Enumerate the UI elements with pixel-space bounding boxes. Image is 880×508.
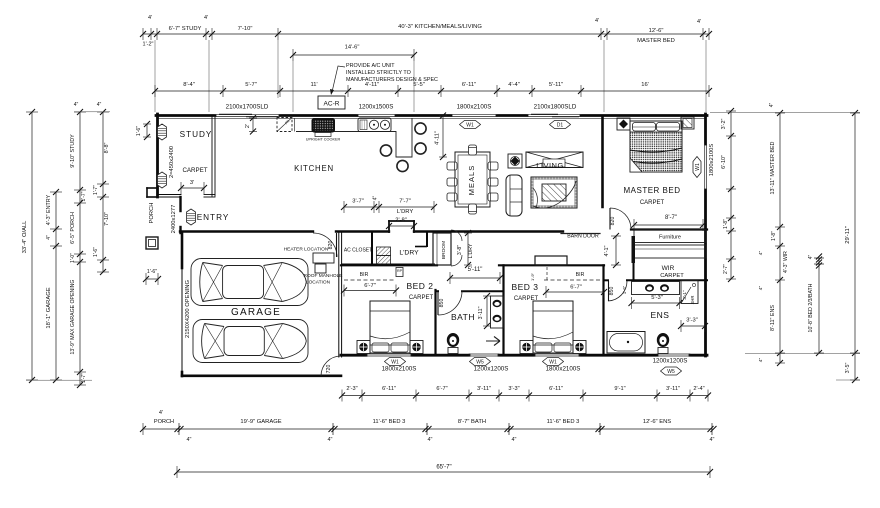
right col B (779, 113, 781, 363)
svg-text:WIR: WIR (662, 265, 675, 272)
svg-text:STUDY: STUDY (180, 130, 213, 139)
ens vanity (632, 282, 680, 295)
svg-text:6'-5" PORCH: 6'-5" PORCH (70, 212, 76, 244)
door: entry hatch panel (187, 209, 196, 225)
porch 1-6 dim (146, 278, 158, 280)
svg-text:1'-0": 1'-0" (70, 253, 76, 263)
bath window marker (470, 358, 491, 366)
svg-text:9'-1": 9'-1" (614, 386, 625, 392)
bath toilet (447, 333, 459, 347)
svg-text:5'-11": 5'-11" (468, 267, 483, 273)
svg-text:AC CLOSET: AC CLOSET (344, 248, 372, 254)
window opening in top wall 451-497 (451, 114, 497, 116)
svg-text:L'DRY: L'DRY (397, 209, 414, 215)
wall: porch notch (147, 187, 157, 189)
svg-text:29'-11": 29'-11" (845, 226, 851, 244)
svg-text:16': 16' (641, 82, 649, 88)
bed3 window marker (543, 358, 564, 366)
svg-text:14'-6": 14'-6" (345, 45, 360, 51)
rug inner hatched (542, 184, 566, 201)
ens 5-3 dim (632, 302, 680, 304)
ldry dims above hall (344, 206, 434, 208)
kitchen stools (380, 145, 391, 156)
wall: bed2 east / bath west (434, 290, 436, 355)
svg-text:SHR: SHR (690, 296, 695, 305)
svg-text:7'-10": 7'-10" (104, 212, 110, 226)
wall: ens north / wir south (604, 279, 609, 281)
kitchen bench counter (296, 118, 412, 157)
master window marker (693, 157, 701, 178)
svg-text:1'-6": 1'-6" (622, 285, 627, 294)
svg-text:1200x1200S: 1200x1200S (474, 366, 509, 373)
svg-text:RP: RP (397, 269, 403, 273)
svg-text:3'-11": 3'-11" (666, 386, 680, 392)
svg-text:4'-3" WIR: 4'-3" WIR (783, 251, 789, 273)
door: master 820 (610, 208, 631, 229)
svg-text:3': 3' (190, 180, 194, 186)
window opening bottom wall 657-690 (657, 353, 690, 355)
wall: left exterior (study) (156, 114, 159, 197)
svg-text:HEATER LOCATION: HEATER LOCATION (284, 247, 329, 253)
bath arrow (486, 337, 500, 346)
svg-text:2'-7": 2'-7" (723, 264, 729, 274)
wall: master south / wir north (631, 228, 707, 230)
svg-text:INSTALLED STRICTLY TO: INSTALLED STRICTLY TO (346, 70, 411, 76)
left side connector lines (74, 111, 110, 113)
svg-text:6'-7": 6'-7" (436, 386, 447, 392)
svg-text:3'-3": 3'-3" (686, 318, 698, 324)
svg-text:1'-2": 1'-2" (143, 42, 154, 48)
wall: master west (601, 117, 604, 207)
svg-text:9'-10" STUDY: 9'-10" STUDY (70, 134, 76, 168)
svg-text:5'-11": 5'-11" (549, 82, 563, 88)
svg-text:4': 4' (148, 15, 152, 21)
wall: bath north + door jamb (436, 290, 439, 292)
laundry appliances (377, 247, 391, 256)
wall: entry west (179, 197, 181, 211)
svg-text:5'-3": 5'-3" (651, 295, 663, 301)
svg-text:6'-10": 6'-10" (721, 155, 727, 169)
window opening bottom wall 366-412 (366, 353, 412, 355)
study window symbol lower (158, 172, 167, 188)
svg-text:4': 4' (204, 15, 208, 21)
ens shower (681, 281, 698, 304)
roof manhole (315, 264, 326, 273)
master bed side table right (681, 117, 694, 129)
ens toilet (657, 333, 669, 347)
svg-text:2'-8": 2'-8" (395, 218, 407, 224)
svg-text:1'-6": 1'-6" (93, 247, 99, 257)
svg-text:11': 11' (310, 82, 317, 88)
svg-text:850: 850 (439, 299, 445, 308)
svg-text:BIR: BIR (360, 272, 369, 278)
svg-text:6'-11": 6'-11" (462, 82, 476, 88)
svg-text:4": 4" (758, 286, 764, 291)
AC-R box (318, 96, 345, 109)
svg-text:3'-2": 3'-2" (721, 119, 727, 130)
svg-text:1800x2100S: 1800x2100S (546, 366, 581, 373)
window opening bottom wall 534-580 (534, 353, 580, 355)
wall: bed3 east / ens west (602, 265, 604, 355)
svg-text:W5: W5 (667, 369, 675, 375)
svg-text:3'-7": 3'-7" (352, 199, 364, 205)
svg-text:PORCH: PORCH (149, 203, 155, 224)
extension lines from row A (154, 40, 156, 112)
svg-text:3'-1": 3'-1" (682, 290, 687, 300)
svg-text:1'-7": 1'-7" (81, 373, 87, 383)
bed2 bed (370, 301, 410, 353)
meals chairs (447, 162, 457, 170)
dim row A (top) (143, 33, 709, 35)
svg-text:4": 4" (74, 102, 79, 108)
svg-text:2': 2' (245, 124, 251, 128)
study 3ft dim (181, 187, 204, 189)
living couch (506, 175, 522, 216)
door: garage 820 top (313, 233, 337, 257)
svg-text:12'-6" ENS: 12'-6" ENS (643, 419, 671, 425)
left col3 (79, 112, 81, 385)
svg-text:2100x1700SLD: 2100x1700SLD (226, 104, 269, 111)
svg-text:7'-10": 7'-10" (238, 26, 253, 32)
hall 4-1 dim (615, 236, 617, 265)
svg-text:ENTRY: ENTRY (197, 213, 230, 222)
svg-text:KITCHEN: KITCHEN (294, 164, 334, 173)
svg-text:10'-8" BED 2/3/BATH: 10'-8" BED 2/3/BATH (808, 283, 814, 332)
broom closet (433, 233, 451, 265)
svg-text:ROOF MANHOLE: ROOF MANHOLE (304, 273, 343, 279)
master pillows (633, 123, 656, 132)
svg-text:19'-9" GARAGE: 19'-9" GARAGE (240, 419, 281, 425)
window opening bottom wall 469-499 (469, 353, 499, 355)
top wall markers (460, 121, 481, 129)
svg-text:BARN DOOR: BARN DOOR (567, 234, 599, 240)
svg-text:CARPET: CARPET (409, 295, 434, 301)
bottom row 3 65-7 (177, 471, 710, 473)
svg-text:850: 850 (609, 287, 615, 296)
svg-text:1'-9": 1'-9" (530, 272, 535, 281)
porch post (146, 237, 158, 249)
svg-text:3'-11": 3'-11" (478, 306, 484, 319)
svg-text:11'-6" BED 3: 11'-6" BED 3 (373, 419, 406, 425)
svg-text:6'-7" STUDY: 6'-7" STUDY (169, 26, 202, 32)
wall: wir-vestibule west stub (633, 263, 635, 280)
svg-text:4": 4" (46, 235, 52, 240)
living side table (508, 154, 522, 168)
door: broom double doors (451, 230, 462, 241)
wall: bottom exterior (house) (341, 354, 366, 357)
closet bump above bed3 wall (535, 256, 567, 265)
svg-text:2100x1800SLD: 2100x1800SLD (534, 104, 577, 111)
bath 3-11 dim (486, 296, 488, 326)
svg-text:33'-4" O/ALL: 33'-4" O/ALL (22, 220, 28, 254)
right col D (854, 113, 856, 380)
garage car 2 (193, 320, 308, 363)
svg-text:5'-5": 5'-5" (413, 82, 425, 88)
meals table (455, 152, 490, 207)
svg-text:4": 4" (769, 103, 775, 108)
bed2 bir dashed (344, 279, 396, 281)
svg-text:6'-7": 6'-7" (364, 283, 376, 289)
svg-text:6'-11": 6'-11" (382, 386, 396, 392)
svg-text:BED 3: BED 3 (511, 282, 538, 292)
living tv unit (526, 152, 583, 168)
svg-text:1800x2100S: 1800x2100S (382, 366, 417, 373)
wall: garage south (182, 374, 341, 377)
kitchen 2ft dim (252, 118, 254, 132)
svg-text:MASTER BED: MASTER BED (637, 38, 675, 44)
svg-text:4': 4' (697, 19, 701, 25)
svg-text:CARPET: CARPET (640, 200, 665, 206)
svg-text:BED 2: BED 2 (406, 281, 433, 291)
svg-text:11'-6" BED 3: 11'-6" BED 3 (547, 419, 580, 425)
svg-text:4": 4" (428, 437, 433, 443)
svg-text:6'-11": 6'-11" (549, 386, 563, 392)
laundry room walls (371, 232, 373, 265)
master bed side table left (617, 118, 630, 130)
svg-text:L'DRY: L'DRY (468, 243, 474, 258)
svg-text:4': 4' (159, 410, 163, 416)
bed3 bed (533, 301, 573, 353)
svg-text:CARPET: CARPET (660, 273, 684, 279)
svg-text:1'-7": 1'-7" (81, 191, 87, 201)
laundry nook walls (388, 221, 390, 232)
top wall slider panel lines (219, 113, 252, 115)
top wall inner face line (158, 118, 705, 120)
barn door slider panel (561, 233, 600, 235)
wall: bath east / bed3 west (502, 265, 504, 355)
hall 5-11 dim (450, 277, 500, 279)
living rug (531, 177, 577, 208)
svg-text:1200x1500S: 1200x1500S (359, 104, 394, 111)
svg-text:Furniture: Furniture (659, 235, 681, 241)
garage car 1 (191, 259, 308, 306)
master duvet hatched (630, 132, 682, 172)
wall: garage west (181, 233, 184, 268)
svg-text:LOCATION: LOCATION (306, 280, 331, 286)
svg-text:MASTER BED: MASTER BED (623, 186, 680, 195)
svg-text:D1: D1 (557, 123, 564, 129)
svg-text:1'-6": 1'-6" (147, 269, 157, 275)
wir robe furniture boxes (634, 230, 706, 243)
rug leaf decor (533, 181, 576, 208)
svg-text:18'-1" GARAGE: 18'-1" GARAGE (46, 287, 52, 328)
svg-text:13'-11" MASTER BED: 13'-11" MASTER BED (770, 141, 776, 194)
svg-text:4'-3" ENTRY: 4'-3" ENTRY (46, 194, 52, 225)
window opening in top wall 357-396 (357, 114, 396, 116)
svg-text:1800x2100S: 1800x2100S (457, 104, 492, 111)
right col C (818, 258, 820, 353)
svg-text:MEALS: MEALS (467, 165, 476, 195)
svg-text:ENS: ENS (651, 310, 670, 320)
svg-text:2'-3": 2'-3" (346, 386, 357, 392)
master bed (630, 121, 682, 172)
svg-text:8'-8": 8'-8" (104, 143, 110, 154)
svg-text:GARAGE: GARAGE (231, 307, 281, 318)
svg-text:PORCH: PORCH (154, 419, 174, 425)
study window symbol upper (158, 124, 167, 140)
svg-text:40'-3" KITCHEN/MEALS/LIVING: 40'-3" KITCHEN/MEALS/LIVING (398, 24, 482, 30)
svg-text:1'-6": 1'-6" (136, 126, 142, 136)
door: bath 850 (438, 291, 462, 315)
right col A (730, 111, 732, 279)
wall: hall south / bedrooms north (341, 264, 437, 266)
svg-text:1'-8": 1'-8" (771, 231, 777, 241)
svg-text:3'-5": 3'-5" (845, 363, 851, 374)
svg-text:820: 820 (610, 217, 616, 226)
wall: study south w/ 3ft opening (157, 194, 181, 196)
svg-text:4": 4" (710, 437, 715, 443)
dim row C (155, 90, 709, 92)
fridge dashed box (277, 118, 292, 132)
bottom row 1 (342, 395, 708, 397)
svg-text:5'-7": 5'-7" (245, 82, 257, 88)
svg-text:8'-7" BATH: 8'-7" BATH (458, 419, 486, 425)
upright cooker (312, 118, 336, 133)
wall: hall north (kitchen south) (336, 230, 389, 232)
bottom row 2 (143, 428, 712, 430)
svg-text:1200x1200S: 1200x1200S (653, 358, 688, 365)
bed2 rp box (396, 268, 403, 277)
master 8-7 dim (634, 224, 703, 226)
svg-text:2'-4": 2'-4" (693, 386, 704, 392)
svg-text:AC-R: AC-R (324, 101, 340, 108)
left col1 33-4 overall (31, 112, 33, 380)
window opening in top wall 215-280 (215, 114, 280, 116)
bath vanity (491, 296, 504, 328)
svg-text:4'-11": 4'-11" (365, 82, 379, 88)
svg-text:2400x1277: 2400x1277 (171, 205, 177, 234)
svg-text:3'-8": 3'-8" (457, 245, 463, 255)
svg-text:8'-7": 8'-7" (665, 215, 677, 221)
svg-text:BROOM: BROOM (441, 241, 447, 259)
svg-text:1'-8": 1'-8" (723, 219, 729, 229)
window opening right wall (master) (704, 144, 706, 190)
left col4 (102, 112, 104, 272)
svg-text:L'DRY: L'DRY (399, 250, 419, 257)
dim row B 14-6 (293, 54, 414, 56)
svg-text:6'-7": 6'-7" (570, 285, 582, 291)
svg-text:4": 4" (758, 358, 764, 363)
svg-text:820: 820 (328, 241, 334, 250)
svg-text:LIVING: LIVING (536, 161, 564, 170)
svg-text:3'-3": 3'-3" (508, 386, 519, 392)
svg-text:720: 720 (326, 365, 332, 374)
svg-text:2=450x2400: 2=450x2400 (169, 146, 175, 178)
wall: kitchen south / garage north (180, 230, 313, 232)
bed2 window marker (385, 358, 406, 366)
svg-text:4'-4": 4'-4" (508, 82, 520, 88)
ens bathtub (607, 332, 645, 354)
svg-text:13'-9" MAX GARAGE OPENING: 13'-9" MAX GARAGE OPENING (70, 280, 76, 355)
broom dims (467, 233, 469, 265)
svg-text:4": 4" (758, 251, 764, 256)
study window offset dim 1-6 (146, 124, 148, 137)
svg-text:1800x2100S: 1800x2100S (709, 144, 715, 177)
svg-text:4': 4' (595, 18, 599, 24)
kitchen 4-11 dim (442, 116, 444, 158)
svg-text:UPRIGHT COOKER: UPRIGHT COOKER (306, 138, 341, 142)
svg-text:4'-1": 4'-1" (604, 245, 610, 256)
svg-text:3'-11": 3'-11" (477, 386, 491, 392)
svg-text:7'-7": 7'-7" (399, 199, 411, 205)
svg-text:CARPET: CARPET (182, 167, 207, 174)
svg-text:BATH: BATH (451, 312, 475, 322)
svg-text:12'-6": 12'-6" (649, 28, 664, 34)
right side connector lines (710, 111, 860, 113)
window opening in top wall 527-581 (527, 114, 581, 116)
svg-text:4'-11": 4'-11" (435, 131, 441, 145)
wall: garage east (338, 233, 340, 357)
heater box (313, 253, 334, 263)
svg-text:4": 4" (97, 102, 102, 108)
svg-text:8'-4": 8'-4" (183, 82, 195, 88)
svg-text:W1: W1 (466, 123, 474, 129)
bed2 side tables (357, 341, 370, 354)
kitchen sink (358, 118, 391, 132)
left col2 (55, 192, 57, 380)
svg-text:8'-11" ENS: 8'-11" ENS (770, 305, 776, 331)
svg-text:BIR: BIR (576, 272, 585, 278)
door: garage 720 rear (321, 356, 341, 376)
svg-text:4": 4" (373, 196, 379, 201)
door: ens 850 (608, 281, 627, 301)
svg-text:4": 4" (328, 437, 333, 443)
bed3 bir dashed (544, 279, 602, 281)
ens 3-3 dim (681, 325, 705, 327)
wall: exterior right (704, 114, 707, 144)
svg-text:65'-7": 65'-7" (436, 465, 451, 471)
svg-text:4": 4" (187, 437, 192, 443)
wall: top exterior (156, 114, 215, 117)
svg-text:W1: W1 (695, 163, 701, 171)
bed3 side tables (520, 341, 533, 354)
svg-text:1'-7": 1'-7" (93, 185, 99, 195)
wall: study east (211, 117, 213, 196)
svg-text:4": 4" (808, 255, 814, 260)
svg-text:4": 4" (512, 437, 517, 443)
svg-text:2150X4200 OPENING: 2150X4200 OPENING (185, 280, 191, 338)
svg-text:PROVIDE A/C UNIT: PROVIDE A/C UNIT (346, 63, 395, 69)
